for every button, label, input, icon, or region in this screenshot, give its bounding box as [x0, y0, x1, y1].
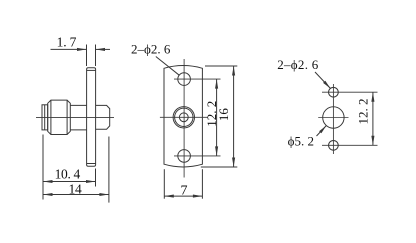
dim 14 dimension line: [43, 194, 109, 196]
front view: center connector circles: [173, 107, 194, 128]
svg-text:7: 7: [181, 183, 188, 198]
dim 14 right extension line: [108, 137, 110, 203]
svg-text:1. 7: 1. 7: [57, 34, 77, 49]
side view centerline: [36, 116, 114, 118]
front view leader 2-phi2.6: [156, 57, 179, 76]
dim 1.7 arrow left-pointing: [96, 48, 106, 51]
svg-text:2–ϕ2. 6: 2–ϕ2. 6: [277, 57, 319, 72]
top hole horizontal centerline + 12.2 extension: [174, 78, 221, 80]
dim 1.7 dimension lines: [51, 48, 87, 50]
flange top inner line: [87, 69, 96, 71]
hole pattern view vertical centerline: [332, 84, 334, 154]
svg-text:16: 16: [216, 108, 231, 122]
dim 10.4 right extension line: [95, 169, 97, 187]
flange bottom inner line: [87, 163, 96, 165]
front view vertical centerline: [183, 59, 185, 178]
dim 1.7 arrow right-pointing: [77, 48, 87, 51]
side view: flange plate (edge-on): [87, 68, 96, 166]
bottom hole horizontal centerline + 12.2 extension: [174, 155, 221, 157]
dim 7 extension lines: [163, 169, 165, 199]
leader 2-phi2.6 (hole pattern): [315, 72, 330, 88]
top hole horizontal line + 12.2 extension: [322, 91, 378, 93]
dim 16 extension bottom: [201, 166, 238, 168]
center hole horizontal centerline: [318, 117, 348, 119]
front view: bottom mounting hole: [178, 150, 191, 163]
dim 10.4 dimension line: [43, 181, 96, 183]
bottom hole horizontal line + 12.2 extension: [322, 144, 378, 146]
svg-text:ϕ5. 2: ϕ5. 2: [288, 134, 314, 149]
dim 7 dimension line: [164, 195, 202, 197]
svg-text:2–ϕ2. 6: 2–ϕ2. 6: [131, 42, 171, 57]
dim 1.7 extension line right: [95, 45, 97, 67]
dim 16 extension top: [205, 65, 237, 67]
front view horizontal centerline (center circles): [160, 116, 208, 118]
svg-text:12. 2: 12. 2: [355, 99, 370, 125]
side view: hex coupling nut outline (chamfered): [48, 100, 71, 134]
nut chamfer line right: [66, 100, 68, 134]
dim 16 dimension line: [233, 66, 235, 167]
hole pattern: bottom hole circle: [329, 140, 339, 150]
side view: rear body: [96, 105, 110, 129]
front view: top mounting hole: [178, 73, 191, 86]
svg-text:14: 14: [68, 181, 82, 196]
dim 12.2 (hole pattern) dimension line: [372, 92, 374, 145]
leader phi5.2 (hole pattern): [317, 126, 327, 136]
hole pattern: center hole circle phi5.2: [323, 107, 344, 128]
svg-text:10. 4: 10. 4: [55, 167, 81, 182]
dim 1.7 extension line left: [86, 45, 88, 67]
side view: body between nut and flange, bottom line: [70, 129, 86, 131]
interface cylinder inner line: [44, 105, 46, 130]
front view: flange outline with arc ends: [164, 66, 202, 167]
side view: body between nut and flange, top line: [70, 104, 86, 106]
dim 12.2 (front view) dimension line: [216, 79, 218, 156]
dim 10.4/14 left extension line: [42, 135, 44, 200]
nut chamfer line left: [50, 100, 52, 134]
hole pattern: top hole circle: [329, 87, 339, 97]
side view: interface cylinder: [42, 105, 48, 130]
